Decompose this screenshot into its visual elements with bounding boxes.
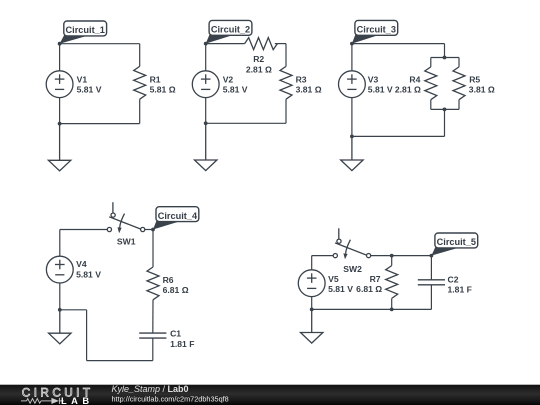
wire: V4 bottom lead — [59, 283, 61, 310]
resistor R7 — [386, 266, 398, 299]
svg-text:V2: V2 — [223, 74, 234, 84]
svg-text:Circuit_5: Circuit_5 — [437, 237, 476, 247]
wire: parallel top bar — [431, 57, 459, 59]
svg-text:3.81 Ω: 3.81 Ω — [296, 85, 322, 95]
svg-text:V4: V4 — [76, 259, 87, 269]
wire: R4 bottom lead — [430, 100, 432, 110]
node: C5 ground junction — [310, 308, 314, 312]
node: Circuit_1 top-left junction — [58, 42, 62, 46]
svg-text:R7: R7 — [370, 274, 381, 284]
svg-text:6.81 Ω: 6.81 Ω — [163, 285, 189, 295]
node: Circuit_4 junction — [151, 228, 155, 232]
wire: R5 top lead — [458, 58, 460, 67]
svg-text:SW1: SW1 — [117, 237, 136, 247]
wire: SW1 to junction — [145, 229, 153, 231]
voltage source V4 — [46, 256, 73, 283]
voltage source V1 — [46, 71, 73, 98]
voltage source V5 — [298, 270, 325, 297]
wire: V3 bottom lead — [351, 98, 353, 137]
wire: R6 top lead — [152, 230, 154, 268]
svg-text:5.81 V: 5.81 V — [77, 85, 102, 95]
wire: C5 top rail to SW2 — [312, 255, 333, 257]
wire: C2 top lead — [430, 256, 432, 280]
svg-text:5.81 V: 5.81 V — [328, 284, 353, 294]
svg-text:5.81 V: 5.81 V — [223, 85, 248, 95]
wire: R3 bottom lead — [285, 99, 287, 123]
ground (Circuit_1) — [48, 124, 70, 171]
node: Circuit_5 junction — [430, 254, 434, 258]
wire: C2 bottom rail — [206, 122, 286, 124]
svg-text:5.81 V: 5.81 V — [368, 84, 393, 94]
switch SW1 — [107, 202, 144, 233]
svg-text:1.81 F: 1.81 F — [448, 285, 472, 295]
wire: R5 bottom lead — [458, 100, 460, 110]
wire: R1 top lead — [139, 44, 141, 67]
wire: C2 top rail left of R2 — [206, 43, 245, 45]
svg-text:3.81 Ω: 3.81 Ω — [469, 85, 495, 95]
ground (Circuit_5) — [301, 309, 323, 343]
node: C4 ground junction — [58, 308, 62, 312]
wire: R4 top lead — [430, 58, 432, 67]
svg-text:2.81 Ω: 2.81 Ω — [395, 84, 421, 94]
svg-text:R5: R5 — [469, 74, 480, 84]
svg-text:5.81 Ω: 5.81 Ω — [150, 85, 176, 95]
svg-text:V5: V5 — [328, 274, 339, 284]
capacitor C1 — [139, 333, 166, 338]
wire: C1 top rail — [60, 43, 140, 45]
wire: C3 top rail — [352, 43, 445, 45]
ground (Circuit_3) — [341, 136, 363, 170]
label Circuit_1 — [60, 21, 107, 44]
svg-text:Circuit_2: Circuit_2 — [211, 25, 250, 35]
svg-text:V1: V1 — [77, 74, 88, 84]
node: R4/R5 bottom junction — [443, 108, 447, 112]
svg-text:C1: C1 — [170, 329, 181, 339]
node: C2 bottom junction — [204, 121, 208, 125]
wire: R7 bottom lead — [391, 298, 393, 309]
svg-text:R3: R3 — [296, 74, 307, 84]
wire: V5 top lead — [311, 256, 313, 270]
resistor R1 — [134, 66, 146, 99]
svg-text:1.81 F: 1.81 F — [170, 339, 194, 349]
svg-text:SW2: SW2 — [343, 264, 362, 274]
wire: V4 top lead — [59, 230, 61, 257]
wire: C2 bottom lead — [430, 285, 432, 310]
resistor R6 — [147, 267, 159, 300]
ground (Circuit_4) — [49, 310, 71, 344]
ground (Circuit_2) — [195, 123, 217, 170]
wire: V5 bottom lead — [311, 297, 313, 310]
wire: C5 bottom rail — [312, 308, 432, 310]
wire: C4 bottom link down — [86, 310, 88, 361]
svg-text:R2: R2 — [253, 54, 264, 64]
wire: V1 top lead — [59, 44, 61, 71]
svg-text:V3: V3 — [368, 75, 379, 85]
wire: C1 bottom lead — [152, 338, 154, 361]
label Circuit_4 — [153, 207, 199, 230]
wire: parallel bottom bar — [431, 108, 459, 110]
resistor R4 — [425, 67, 437, 100]
wire: R3 top lead — [285, 44, 287, 67]
wire: V2 bottom lead — [205, 98, 207, 124]
resistor R5 — [453, 67, 465, 100]
wire: V3 top lead — [351, 44, 353, 71]
svg-text:LAB: LAB — [61, 396, 94, 405]
voltage source V3 — [339, 71, 366, 98]
svg-text:2.81 Ω: 2.81 Ω — [246, 64, 272, 74]
wire: down from parallel pair — [444, 109, 446, 136]
node: C3 bottom junction — [350, 135, 354, 139]
svg-text:R4: R4 — [409, 75, 420, 85]
node: R7 bottom junction — [390, 308, 394, 312]
svg-text:Kyle_Stamp / Lab0: Kyle_Stamp / Lab0 — [112, 384, 189, 394]
capacitor C2 — [418, 280, 445, 285]
label Circuit_2 — [206, 20, 252, 43]
svg-text:Circuit_4: Circuit_4 — [158, 211, 198, 221]
svg-text:6.81 Ω: 6.81 Ω — [356, 284, 382, 294]
wire: C4 bottom rail — [87, 360, 153, 362]
wire: SW2 to C2 branch — [371, 255, 432, 257]
label Circuit_3 — [352, 20, 398, 43]
wire: V2 top lead — [205, 44, 207, 71]
svg-text:Circuit_1: Circuit_1 — [66, 25, 105, 35]
svg-text:C2: C2 — [448, 275, 459, 285]
wire: down to parallel pair — [444, 44, 446, 58]
node: Circuit_3 top-left junction — [350, 42, 354, 46]
footer bar — [0, 385, 540, 405]
switch SW2 — [333, 228, 371, 259]
node: R4/R5 top junction — [443, 56, 447, 60]
wire: R6 to C1 — [152, 300, 154, 333]
svg-text:5.81 V: 5.81 V — [76, 269, 101, 279]
voltage source V2 — [192, 71, 219, 98]
wire: R1 bottom lead — [139, 99, 141, 123]
label Circuit_5 — [431, 233, 477, 256]
wire: R7 top lead — [391, 256, 393, 266]
resistor R2 — [245, 38, 278, 50]
wire: C3 bottom rail — [352, 135, 445, 137]
node: C1 bottom junction — [58, 122, 62, 126]
node: Circuit_2 top-left junction — [204, 42, 208, 46]
svg-text:R1: R1 — [150, 74, 161, 84]
wire: C1 bottom rail — [60, 123, 140, 125]
footer logo resistor squiggle and diode — [21, 398, 64, 404]
node: R7 top junction — [390, 254, 394, 258]
svg-text:Circuit_3: Circuit_3 — [357, 25, 396, 35]
resistor R3 — [280, 66, 292, 99]
wire: V1 bottom lead — [59, 98, 61, 124]
wire: C4 bottom link right — [60, 309, 87, 311]
wire: C4 top rail to SW1 — [60, 229, 108, 231]
wire: C2 top rail right of R2 — [275, 43, 286, 45]
svg-text:R6: R6 — [163, 275, 174, 285]
svg-text:http://circuitlab.com/c2m72dbh: http://circuitlab.com/c2m72dbh35qf8 — [112, 394, 229, 403]
